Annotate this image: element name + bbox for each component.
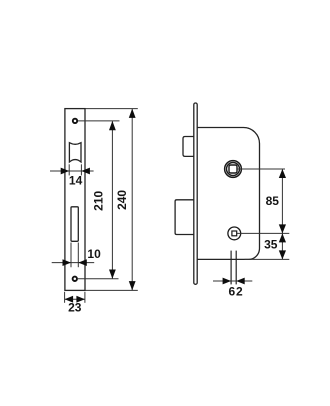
svg-text:14: 14 — [69, 174, 83, 188]
dim 35 bottom leader — [245, 258, 290, 260]
bottom screw hole — [73, 277, 77, 281]
dim 35 arrowheads — [279, 233, 286, 259]
deadbolt side view — [175, 200, 194, 235]
dim 62 arrowheads — [223, 278, 245, 285]
svg-text:62: 62 — [229, 284, 244, 298]
dim 10 arrowheads — [63, 259, 87, 266]
dim 210 bottom extension line — [78, 278, 119, 280]
faceplate side view — [194, 103, 197, 284]
dim 85-35 line — [281, 170, 283, 259]
dim 85 top leader — [237, 168, 285, 170]
dim 240 line — [131, 109, 133, 290]
dim 240 arrowheads — [129, 109, 136, 291]
lock body side view — [197, 128, 259, 260]
dim 240 bottom extension line — [86, 289, 138, 291]
dim 10 line — [52, 262, 94, 264]
cylinder square hole — [232, 231, 237, 236]
dim 85 arrowheads — [279, 169, 286, 233]
spindle hub inner circle — [227, 163, 240, 176]
dim 240 top extension line — [86, 108, 138, 110]
dim 62 line — [213, 280, 252, 282]
deadbolt slot — [71, 207, 78, 242]
faceplate front view — [65, 109, 85, 291]
svg-text:210: 210 — [91, 190, 105, 210]
dim 10 extension lines — [71, 243, 78, 268]
dim 210 arrowheads — [109, 121, 116, 279]
dim 23 arrowheads — [65, 296, 85, 303]
latch bolt side view — [183, 137, 194, 157]
svg-text:23: 23 — [68, 301, 82, 315]
dim 210 line — [111, 122, 113, 279]
latch bolt front — [69, 143, 81, 162]
dim 23 line — [65, 298, 85, 300]
spindle hub outer circle — [225, 161, 242, 178]
svg-text:85: 85 — [266, 194, 280, 208]
dim 14 line — [50, 170, 94, 172]
svg-text:240: 240 — [115, 190, 129, 210]
top screw hole — [73, 119, 77, 123]
fixing hole edge lines (62) — [231, 251, 236, 285]
spindle square hole — [229, 165, 237, 173]
dim 210 top extension line — [78, 120, 120, 122]
svg-text:35: 35 — [264, 238, 278, 252]
svg-text:10: 10 — [87, 247, 101, 261]
dim 14 arrowheads — [61, 168, 90, 175]
dim 85 bottom leader — [237, 232, 289, 234]
cylinder hole circle — [228, 227, 241, 240]
dim 23 extension lines — [65, 292, 85, 303]
dim 14 extension lines — [69, 164, 81, 175]
